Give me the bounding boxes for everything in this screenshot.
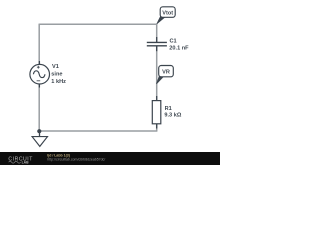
svg-text:R1: R1 (165, 106, 172, 112)
svg-text:9.3 kΩ: 9.3 kΩ (164, 113, 181, 119)
wire left vertical upper (38, 24, 40, 65)
logo CircuitLab (8, 156, 33, 164)
svg-text:sine: sine (51, 71, 62, 77)
capacitor C1 (147, 37, 167, 51)
wire bottom horizontal (39, 130, 157, 132)
watermark bar (0, 152, 220, 165)
wire left vertical lower (38, 84, 40, 131)
svg-text:http://circuitlab.com/c6rb8dze: http://circuitlab.com/c6rb8dzeab57dc/ (47, 158, 105, 162)
watermark text (47, 153, 105, 161)
wire right vertical middle (156, 46, 158, 101)
svg-text:LAB: LAB (22, 161, 30, 165)
svg-text:V1: V1 (52, 64, 59, 70)
voltage source V1 (30, 61, 50, 88)
node VR (157, 66, 174, 84)
label V1 value (51, 64, 66, 85)
node Vtot (157, 7, 175, 24)
label C1 value (169, 39, 189, 52)
resistor R1 (152, 96, 161, 129)
svg-text:C1: C1 (170, 39, 177, 45)
svg-text:1 kHz: 1 kHz (51, 79, 66, 85)
ground (32, 131, 47, 146)
node junction dot (37, 129, 41, 133)
svg-text:VR: VR (162, 70, 170, 76)
label R1 value (164, 106, 181, 119)
wire top horizontal (39, 23, 157, 25)
wire right vertical upper (156, 24, 158, 42)
svg-text:Vtot: Vtot (162, 10, 173, 16)
wire right vertical lower (156, 124, 158, 132)
svg-text:20.1 nF: 20.1 nF (169, 45, 189, 51)
